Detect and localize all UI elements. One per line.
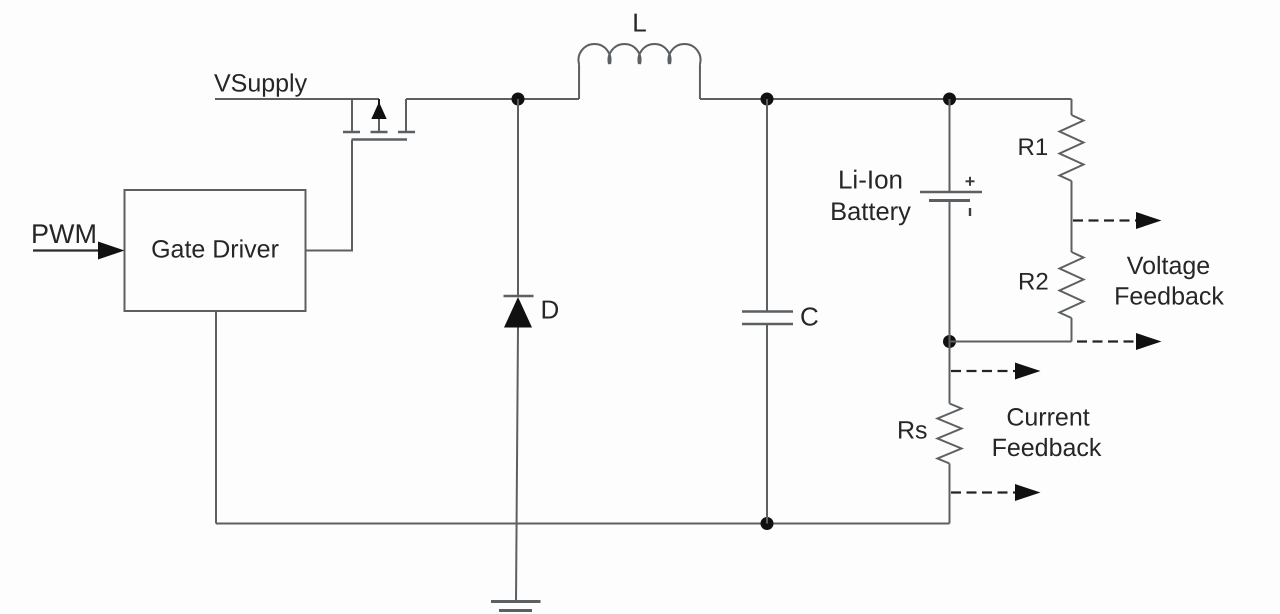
svg-text:Battery: Battery [830,198,911,226]
resistor R2 [1060,252,1084,342]
svg-text:Rs: Rs [897,417,928,445]
node capacitor top [761,93,774,106]
voltage feedback arrow upper [1073,212,1162,229]
wire VSupply to MOSFET source [215,98,379,100]
current feedback arrow lower [951,484,1041,501]
PWM input arrow [33,242,125,260]
node battery top [943,93,956,106]
wire gate driver bottom to ground rail [215,311,217,524]
wire inductor to R1 corner [700,98,1072,100]
svg-text:R1: R1 [1018,134,1049,161]
svg-text:Feedback: Feedback [992,434,1102,462]
Gate Driver U1 box [125,190,306,311]
svg-text:Current: Current [1006,404,1089,432]
svg-text:Feedback: Feedback [1114,283,1224,311]
voltage feedback arrow lower [1077,333,1162,350]
svg-text:Voltage: Voltage [1127,252,1210,280]
node diode top [512,93,525,106]
battery plus mark [966,177,975,186]
capacitor C [742,99,793,524]
svg-text:Li-Ion: Li-Ion [838,165,903,195]
svg-text:PWM: PWM [31,219,97,249]
inductor L [579,44,701,99]
transistor Q1 (P-MOSFET) [343,99,415,140]
ground [491,602,541,611]
resistor R1 [1060,99,1084,252]
svg-text:D: D [541,295,560,325]
svg-text:C: C [800,302,819,332]
current feedback arrow upper [951,363,1041,380]
svg-text:Gate Driver: Gate Driver [151,236,279,264]
node capacitor bottom [761,517,774,530]
wire bottom rail [216,523,950,525]
svg-text:L: L [632,8,646,38]
wire gate driver output to gate [306,140,353,251]
diode D [504,99,534,601]
wire battery bottom to R2 bottom [950,341,1072,343]
svg-text:R2: R2 [1018,269,1049,296]
node battery bottom [943,335,956,348]
battery B1 Li-Ion [920,99,982,342]
wire MOSFET drain to inductor [406,98,579,100]
resistor Rs [938,342,962,524]
svg-text:VSupply: VSupply [214,70,308,98]
battery minus mark [969,208,971,216]
